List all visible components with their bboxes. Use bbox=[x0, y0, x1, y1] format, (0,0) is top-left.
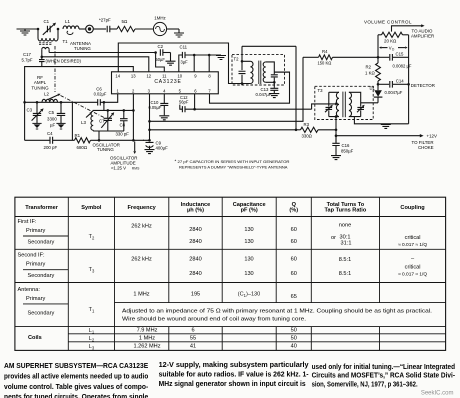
svg-text:C14: C14 bbox=[396, 78, 404, 83]
wire supply rail R3 bbox=[150, 129, 297, 131]
ground bbox=[174, 33, 184, 37]
svg-text:Secondary: Secondary bbox=[28, 240, 55, 246]
svg-text:suitable for auto radios. IF v: suitable for auto radios. IF value is 26… bbox=[159, 372, 310, 379]
capacitor C8 330pF bbox=[123, 109, 126, 112]
table column lines bbox=[68, 197, 379, 350]
svg-text:2840: 2840 bbox=[189, 239, 201, 245]
svg-text:TUNING: TUNING bbox=[31, 85, 49, 90]
svg-text:262 kHz: 262 kHz bbox=[131, 256, 152, 262]
svg-text:C11: C11 bbox=[180, 45, 188, 50]
svg-text:3300: 3300 bbox=[47, 117, 57, 122]
svg-text:10: 10 bbox=[177, 74, 182, 79]
wire pin 2 to oscillator bbox=[132, 94, 134, 141]
wire D1 to T3 secondary bbox=[361, 102, 378, 104]
oscillator tank box right bbox=[71, 102, 73, 140]
T2 secondary tap wire bbox=[274, 71, 289, 73]
svg-text:*: * bbox=[175, 159, 177, 164]
svg-text:5Ω: 5Ω bbox=[122, 19, 128, 24]
svg-text:12-V supply, making subsyst: 12-V supply, making subsystem particular… bbox=[159, 362, 309, 369]
svg-text:150 KΩ: 150 KΩ bbox=[318, 60, 332, 65]
svg-text:31:1: 31:1 bbox=[341, 241, 352, 247]
resistor 5 ohm bbox=[117, 26, 135, 31]
capacitor C9 400uF with ground bbox=[146, 142, 154, 147]
transformer T1 primary bbox=[37, 29, 39, 38]
svg-text:680Ω: 680Ω bbox=[77, 145, 88, 150]
connector jack bbox=[86, 25, 94, 33]
capacitor C17 5.7pF optional bbox=[41, 57, 43, 60]
svg-text:330 pF: 330 pF bbox=[116, 132, 130, 137]
capacitor C16 850uF with ground bbox=[335, 136, 337, 143]
T2 primary tank bbox=[242, 46, 250, 83]
svg-text:50: 50 bbox=[291, 328, 297, 334]
svg-text:L2: L2 bbox=[89, 336, 95, 343]
oscillator tank bottom rail bbox=[93, 129, 124, 132]
feedback wire pin14 staple bbox=[118, 43, 242, 84]
svg-text:56pF: 56pF bbox=[179, 100, 189, 105]
svg-text:7.9 MHz: 7.9 MHz bbox=[137, 328, 158, 334]
svg-text:200 pF: 200 pF bbox=[44, 145, 58, 150]
svg-text:C3: C3 bbox=[27, 107, 33, 112]
svg-text:+12V: +12V bbox=[427, 134, 437, 139]
svg-text:Transformer: Transformer bbox=[25, 205, 58, 211]
table frame bbox=[15, 197, 446, 350]
svg-text:C8: C8 bbox=[120, 123, 126, 128]
antenna input ground bbox=[17, 28, 39, 30]
svg-text:1MHz: 1MHz bbox=[154, 16, 165, 21]
svg-text:3µF: 3µF bbox=[181, 59, 189, 64]
T3 core bbox=[342, 92, 344, 118]
svg-text:T1: T1 bbox=[63, 39, 69, 44]
wire pins to T3 tap bbox=[312, 104, 336, 109]
svg-text:AM SUPERHET SUBSYSTEM—RCA C: AM SUPERHET SUBSYSTEM—RCA CA3123E bbox=[4, 363, 149, 370]
capacitor C6 0.02uF bbox=[25, 94, 118, 103]
oscillator amplitude pointer bbox=[134, 142, 136, 152]
T1 core bbox=[39, 42, 52, 44]
svg-text:TUNING: TUNING bbox=[97, 147, 114, 152]
resistor R2 1K bbox=[376, 63, 381, 81]
capacitor C13 0.047uF with ground bbox=[273, 82, 275, 88]
wire bbox=[110, 28, 117, 30]
resistor R3 330 ohm bbox=[296, 129, 301, 131]
svg-text:1.262 MHz: 1.262 MHz bbox=[133, 344, 160, 350]
svg-text:5.7pF: 5.7pF bbox=[22, 58, 33, 63]
capacitor C7 variable bbox=[107, 109, 110, 112]
inductor L2 bbox=[23, 101, 26, 104]
capacitor C11 3pF bbox=[179, 55, 221, 72]
capacitor C4 200pF bbox=[25, 139, 50, 141]
wire secondary rail upper bbox=[49, 52, 156, 54]
svg-text:T1: T1 bbox=[89, 307, 95, 314]
svg-text:sion, Somerville, NJ, 1977, p: sion, Somerville, NJ, 1977, p 361–362. bbox=[312, 381, 418, 388]
svg-text:8.5:1: 8.5:1 bbox=[339, 271, 351, 277]
svg-text:Tap Turns Ratio: Tap Turns Ratio bbox=[325, 208, 367, 214]
svg-text:55: 55 bbox=[190, 336, 196, 342]
wire AGC rail to R4 bbox=[150, 57, 304, 121]
svg-text:40: 40 bbox=[291, 344, 297, 350]
capacitor C3 variable with ground bbox=[36, 101, 39, 104]
svg-text:≈ 0.017 ≈ 1/Q: ≈ 0.017 ≈ 1/Q bbox=[398, 272, 427, 278]
svg-text:REPRESENTS A DUMMY “WINDSHI: REPRESENTS A DUMMY “WINDSHIELD”-TYPE ANT… bbox=[179, 165, 288, 170]
svg-text:L1: L1 bbox=[89, 328, 95, 335]
svg-text:Second IF:: Second IF: bbox=[18, 253, 45, 259]
svg-text:0.0047µF: 0.0047µF bbox=[385, 90, 403, 95]
svg-text:VOLUME CONTROL: VOLUME CONTROL bbox=[364, 20, 412, 25]
svg-text:critical: critical bbox=[405, 235, 421, 241]
capacitor C1 variable bbox=[47, 26, 50, 33]
svg-text:13: 13 bbox=[131, 74, 136, 79]
svg-text:C2: C2 bbox=[158, 44, 164, 49]
svg-text:used only for initial tuning.—: used only for initial tuning.—“Linear In… bbox=[312, 364, 455, 371]
svg-text:27 pF CAPACITOR IN SERIES: 27 pF CAPACITOR IN SERIES WITH INPUT GEN… bbox=[178, 159, 290, 164]
svg-text:Frequency: Frequency bbox=[128, 205, 157, 211]
svg-text:µh (%): µh (%) bbox=[187, 208, 204, 214]
svg-text:2840: 2840 bbox=[189, 256, 201, 262]
svg-text:CHOKE: CHOKE bbox=[418, 145, 434, 150]
wire to generator ground bbox=[167, 28, 179, 30]
svg-text:Adjusted to an impedance of 75: Adjusted to an impedance of 75 Ω with pr… bbox=[122, 308, 432, 314]
svg-text:L3: L3 bbox=[89, 344, 95, 351]
svg-text:pF (%): pF (%) bbox=[241, 208, 258, 214]
T3 primary tank bbox=[329, 92, 339, 116]
wire bbox=[93, 28, 106, 30]
T2 secondary tank bbox=[263, 62, 266, 82]
svg-text:AMPLIFIER: AMPLIFIER bbox=[411, 34, 434, 39]
svg-text:60: 60 bbox=[291, 239, 297, 245]
svg-text:14: 14 bbox=[115, 74, 120, 79]
svg-text:TUNING: TUNING bbox=[74, 46, 91, 51]
capacitor *27pF dummy antenna bbox=[107, 26, 110, 33]
inductor L1 bbox=[63, 26, 79, 29]
svg-text:6: 6 bbox=[191, 328, 194, 334]
op-amp IC U1 CA3123E bbox=[112, 72, 219, 94]
svg-text:Coupling: Coupling bbox=[400, 205, 425, 211]
svg-text:1 MHz: 1 MHz bbox=[139, 336, 155, 342]
svg-text:C5: C5 bbox=[49, 110, 55, 115]
potentiometer 20K volume control bbox=[378, 34, 382, 36]
svg-text:Circuits and MOSFET’s,” RCA So: Circuits and MOSFET’s,” RCA Solid State … bbox=[312, 373, 456, 380]
potentiometer tap to audio bbox=[392, 26, 422, 32]
svg-text:130: 130 bbox=[244, 227, 253, 233]
svg-text:C15: C15 bbox=[396, 51, 404, 56]
svg-text:1 MHz: 1 MHz bbox=[133, 292, 149, 298]
capacitor C14 0.0047uF detector bbox=[378, 83, 389, 85]
svg-text:L2: L2 bbox=[44, 92, 49, 97]
wire pin 3 down bbox=[149, 94, 151, 141]
svg-text:R2: R2 bbox=[366, 64, 372, 69]
wire T3 primary bottom to supply bbox=[335, 117, 337, 143]
svg-text:60: 60 bbox=[291, 227, 297, 233]
svg-text:60: 60 bbox=[291, 271, 297, 277]
svg-text:Antenna:: Antenna: bbox=[18, 287, 41, 293]
svg-text:critical: critical bbox=[405, 264, 421, 270]
wire pin 6 stub bbox=[194, 94, 196, 109]
wire pin 8 stub bbox=[208, 55, 210, 72]
svg-text:T3: T3 bbox=[318, 88, 324, 93]
wire secondary rail lower to pin 12 bbox=[42, 57, 149, 72]
svg-text:nents for tuned circuits. Oper: nents for tuned circuits. Operates from … bbox=[4, 394, 148, 398]
svg-text:C16: C16 bbox=[342, 143, 350, 148]
transformer T2 shield box bbox=[232, 55, 285, 85]
svg-text:12: 12 bbox=[146, 74, 151, 79]
svg-text:30:1: 30:1 bbox=[340, 234, 351, 240]
svg-text:130: 130 bbox=[244, 239, 253, 245]
svg-text:C7: C7 bbox=[99, 118, 105, 123]
svg-text:T2: T2 bbox=[234, 56, 240, 61]
wire C2 node to pin 11 bbox=[156, 53, 165, 72]
svg-text:(%): (%) bbox=[289, 208, 298, 214]
signal generator 1MHz bbox=[153, 22, 166, 35]
svg-text:DETECTOR: DETECTOR bbox=[411, 83, 435, 88]
svg-text:0.047µF: 0.047µF bbox=[256, 92, 272, 97]
svg-text:0.05µF: 0.05µF bbox=[149, 105, 162, 110]
svg-text:(C1)–130: (C1)–130 bbox=[238, 292, 261, 298]
transformer T3 shield box bbox=[315, 86, 373, 119]
svg-text:≈ 0.017 ≈ 1/Q: ≈ 0.017 ≈ 1/Q bbox=[398, 242, 427, 248]
svg-text:or: or bbox=[331, 235, 336, 241]
svg-text:volume control. Table gives va: volume control. Table gives values of co… bbox=[4, 384, 149, 391]
svg-text:none: none bbox=[339, 223, 351, 229]
svg-text:195: 195 bbox=[191, 292, 200, 298]
wire T3 secondary bottom bbox=[354, 117, 408, 124]
svg-text:R4: R4 bbox=[322, 49, 328, 54]
table row lines bbox=[15, 217, 446, 342]
svg-text:2840: 2840 bbox=[189, 227, 201, 233]
svg-text:Secondary: Secondary bbox=[28, 273, 55, 279]
svg-text:Symbol: Symbol bbox=[81, 205, 102, 211]
RF amp box wire to pin 13 bbox=[25, 67, 134, 103]
svg-text:T2: T2 bbox=[89, 234, 95, 241]
svg-text:Primary: Primary bbox=[26, 228, 45, 234]
svg-text:Coils: Coils bbox=[28, 335, 42, 341]
wire +12V supply bbox=[336, 135, 420, 137]
svg-text:Secondary: Secondary bbox=[28, 311, 55, 317]
wire pot right leg detector output bbox=[408, 35, 410, 124]
svg-text:RMS: RMS bbox=[132, 167, 140, 171]
wire pin 7 to T2 secondary tap bbox=[210, 72, 290, 103]
wire bbox=[79, 28, 86, 30]
svg-text:50: 50 bbox=[291, 336, 297, 342]
wire T2 primary top to supply node bbox=[242, 46, 296, 130]
svg-text:41: 41 bbox=[190, 344, 196, 350]
oscillator tank box left bbox=[24, 102, 26, 140]
resistor R4 150K bbox=[303, 56, 319, 58]
svg-text:8.5:1: 8.5:1 bbox=[339, 257, 351, 263]
svg-text:CA3123E: CA3123E bbox=[154, 79, 181, 85]
svg-text:*27pF: *27pF bbox=[99, 18, 111, 23]
svg-text:130: 130 bbox=[244, 256, 253, 262]
wire pot left leg bbox=[377, 35, 379, 63]
svg-text:T3: T3 bbox=[89, 267, 95, 274]
svg-text:First IF:: First IF: bbox=[18, 219, 37, 225]
ground bbox=[381, 124, 391, 128]
T1 secondary winding bbox=[42, 47, 49, 49]
svg-text:2840: 2840 bbox=[189, 271, 201, 277]
oscillator tank top rail bbox=[103, 101, 106, 104]
svg-text:provides all active elements n: provides all active elements needed up t… bbox=[4, 374, 148, 381]
svg-text:60: 60 bbox=[291, 256, 297, 262]
diode D1 bbox=[377, 84, 379, 90]
svg-text:850µF: 850µF bbox=[341, 148, 354, 153]
svg-text:C17: C17 bbox=[23, 52, 31, 57]
VD span marker bbox=[381, 47, 387, 49]
T3 secondary tank bbox=[349, 92, 352, 116]
tuning gang dash line bbox=[55, 46, 104, 118]
svg-text:(WHEN DESIRED): (WHEN DESIRED) bbox=[46, 59, 82, 64]
resistor R1 680 ohm bbox=[75, 138, 91, 143]
wire pin 9 stub bbox=[193, 55, 195, 72]
capacitor C2 50pF with ground bbox=[154, 51, 157, 54]
svg-text:≈1.25 V: ≈1.25 V bbox=[111, 166, 126, 171]
svg-text:1 KΩ: 1 KΩ bbox=[365, 70, 375, 75]
T2 core bbox=[258, 61, 260, 84]
svg-text:65: 65 bbox=[291, 294, 297, 300]
svg-text:C1: C1 bbox=[44, 19, 50, 24]
svg-text:0.02µF: 0.02µF bbox=[94, 91, 107, 96]
svg-text:130: 130 bbox=[244, 271, 253, 277]
svg-text:R1: R1 bbox=[75, 133, 81, 138]
svg-text:R3: R3 bbox=[304, 122, 310, 127]
svg-text:C4: C4 bbox=[47, 131, 53, 136]
ground bbox=[216, 56, 226, 60]
svg-text:MHz signal generator shown in: MHz signal generator shown in input circ… bbox=[159, 381, 306, 388]
inductor L3 bbox=[91, 111, 93, 130]
wire bbox=[135, 28, 153, 30]
svg-text:11: 11 bbox=[162, 74, 167, 79]
svg-text:262 kHz: 262 kHz bbox=[131, 223, 152, 229]
svg-text:400µF: 400µF bbox=[156, 146, 169, 151]
capacitor C15 0.0082uF bbox=[378, 56, 389, 58]
svg-text:D1: D1 bbox=[370, 85, 376, 90]
svg-text:50µF: 50µF bbox=[156, 57, 166, 62]
svg-text:20 KΩ: 20 KΩ bbox=[384, 39, 397, 44]
svg-text:L1: L1 bbox=[65, 19, 70, 24]
svg-text:µF: µF bbox=[50, 122, 56, 127]
svg-text:Wire should be wound around en: Wire should be wound around end of coil … bbox=[122, 316, 306, 322]
wire oscillator to C9 node bbox=[91, 139, 150, 141]
svg-text:Primary: Primary bbox=[26, 296, 45, 302]
svg-text:L3: L3 bbox=[81, 120, 86, 125]
svg-text:330Ω: 330Ω bbox=[302, 134, 313, 139]
svg-text:SeekIC.com: SeekIC.com bbox=[421, 391, 454, 397]
svg-text:Primary: Primary bbox=[26, 262, 45, 268]
capacitor C5 3300pF with ground bbox=[60, 101, 63, 104]
capacitor C10 0.05uF with ground bbox=[163, 94, 165, 103]
